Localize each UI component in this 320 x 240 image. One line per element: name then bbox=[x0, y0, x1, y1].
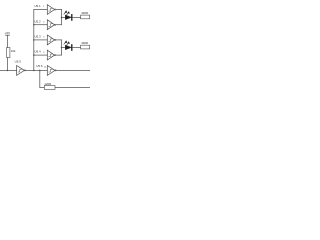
junction bus row D bbox=[33, 54, 35, 56]
op-amp U5.3 bbox=[34, 35, 55, 45]
junction LED2 tap bbox=[61, 47, 63, 49]
wire vertical bus bbox=[33, 10, 35, 71]
wire row B input bbox=[34, 24, 48, 26]
resistor R3 bbox=[81, 41, 90, 49]
svg-text:U5.2: U5.2 bbox=[34, 19, 41, 23]
junction input net bbox=[7, 70, 9, 72]
wire to LED1 bbox=[62, 16, 66, 18]
op-amp U5.1 bbox=[34, 4, 55, 14]
svg-text:U5.4: U5.4 bbox=[34, 50, 41, 54]
junction LED1 tap bbox=[61, 17, 63, 19]
resistor R2 bbox=[81, 11, 90, 19]
wire R1 down to input net bbox=[6, 58, 8, 71]
svg-text:U5.6: U5.6 bbox=[36, 64, 43, 68]
wire LED2 to R3 bbox=[73, 47, 81, 49]
wire row D input bbox=[34, 54, 48, 56]
wire to LED2 bbox=[62, 47, 66, 49]
wire row A input bbox=[34, 9, 48, 11]
wire row C output bbox=[56, 39, 62, 41]
svg-text:+5V: +5V bbox=[5, 31, 10, 35]
resistor R1 bbox=[7, 48, 16, 58]
wire U5.6 output to right edge bbox=[56, 69, 90, 71]
svg-text:330R: 330R bbox=[81, 41, 88, 45]
wire row D output bbox=[56, 54, 62, 56]
LED D2 bbox=[64, 41, 72, 50]
wire input net from left edge bbox=[0, 69, 17, 71]
LED D1 bbox=[64, 11, 72, 20]
svg-text:U5.1: U5.1 bbox=[34, 4, 41, 8]
svg-text:330R: 330R bbox=[81, 11, 88, 15]
wire U5.5 out to U5.6 in bbox=[26, 69, 48, 71]
op-amp U5.6 (bottom-right Schmitt inverter) bbox=[36, 64, 56, 75]
wire feedback to R4 bbox=[40, 87, 45, 89]
resistor R4 120R bbox=[44, 82, 55, 90]
op-amp U5.2 bbox=[34, 19, 55, 29]
wire row C input bbox=[34, 39, 48, 41]
wire +5V to R1 bbox=[6, 35, 8, 47]
wire row B output bbox=[56, 24, 62, 26]
junction feedback tap bbox=[39, 70, 41, 72]
svg-text:U5.3: U5.3 bbox=[34, 35, 41, 39]
op-amp U5.4 bbox=[34, 50, 55, 60]
svg-text:U5.5: U5.5 bbox=[15, 60, 22, 64]
wire feedback vertical bbox=[39, 70, 41, 87]
+5V supply symbol bbox=[5, 31, 10, 35]
wire bottom rail right to edge bbox=[55, 87, 90, 89]
op-amp U5.5 (bottom-left Schmitt inverter) bbox=[15, 60, 26, 76]
junction bus row C bbox=[33, 39, 35, 41]
junction bus bottom bbox=[33, 70, 35, 72]
wire join rows C-D bbox=[61, 40, 63, 55]
wire LED1 to R2 bbox=[73, 16, 81, 18]
junction bus row B bbox=[33, 24, 35, 26]
wire join rows A-B bbox=[61, 10, 63, 25]
svg-text:10k: 10k bbox=[11, 49, 16, 53]
wire row A output bbox=[56, 9, 62, 11]
